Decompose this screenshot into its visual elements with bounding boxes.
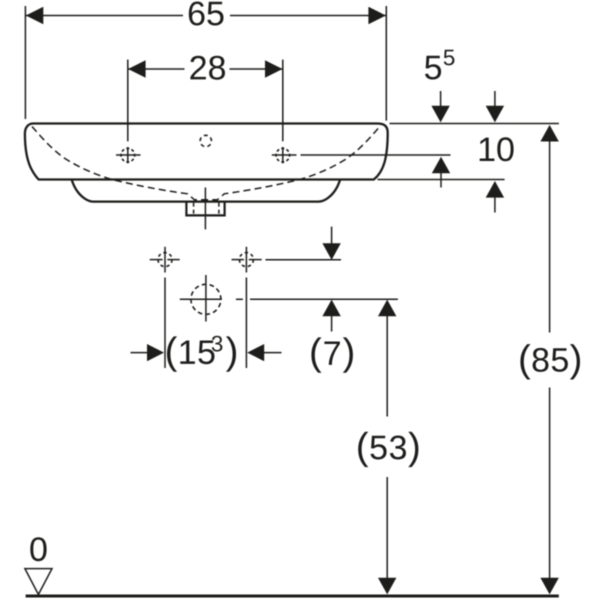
fixing hole left crosshair v (164, 247, 166, 273)
dim 28 extension line right (282, 60, 284, 142)
dim 65 extension line left (24, 6, 26, 119)
dim 28 extension line left (127, 60, 129, 142)
dim 65 line right segment (230, 15, 386, 17)
drain interior dashed line right (218, 203, 220, 215)
basin lower tier outline (72, 180, 340, 202)
dim 53 line upper segment (386, 316, 388, 417)
dim 7 down arrow (331, 227, 333, 244)
dim 53 line lower segment (386, 477, 388, 579)
overflow hole dashed circle (200, 135, 211, 146)
dim 5^5 up arrow (432, 157, 450, 174)
dim 7 label (311, 337, 353, 372)
fixing hole right dashed circle (239, 253, 253, 267)
datum triangle (25, 569, 52, 595)
dim 15_3 line left (131, 352, 148, 354)
drain interior dashed line left (193, 203, 195, 215)
body bottom reference line to right (378, 179, 505, 181)
centerline below drain (204, 188, 206, 230)
dim 28 line right segment (230, 68, 283, 70)
dim 5^5 label (425, 56, 441, 80)
dim 15_3 arrow left (147, 344, 164, 361)
tap hole 1 crosshair h (116, 154, 141, 156)
dim 10 label (480, 137, 514, 161)
dim 10 up arrow (486, 181, 504, 198)
dim 5^5 down arrow (440, 91, 442, 107)
dim 53 down arrow (378, 578, 396, 595)
basin upper body outline (25, 124, 388, 180)
dim 65 line left segment (26, 15, 183, 17)
fixing hole left crosshair h (150, 259, 163, 261)
dim 15_3 label (167, 336, 215, 371)
dim 28 label (190, 56, 225, 80)
drain axis line segment 3 (250, 298, 398, 300)
tap hole 1 dashed circle (121, 148, 135, 162)
dim 28 line left segment (128, 68, 185, 70)
fixing hole right crosshair v (245, 247, 247, 273)
dim 7 up arrow (322, 300, 340, 317)
tap hole 2 crosshair v (282, 147, 284, 163)
dim 15_3 arrow right (247, 344, 264, 361)
rim top reference line to right (390, 123, 559, 125)
dim 65 arrow right (368, 7, 386, 24)
ground line (26, 595, 559, 598)
drain axis line segment 1 (180, 298, 222, 300)
drain hole crosshair v (205, 275, 207, 322)
drain hole dashed circle (191, 284, 221, 314)
dim 28 arrow right (265, 60, 283, 77)
dim 85 line upper segment (549, 141, 551, 332)
tap axis reference line to right (301, 154, 451, 156)
dim 65 extension line right (385, 6, 387, 121)
dim 53 up arrow (378, 300, 396, 317)
tap hole 2 dashed circle (276, 148, 290, 162)
dim 85 down arrow (540, 578, 558, 595)
fixing axis reference line for dim 7 (266, 259, 342, 261)
tap hole 1 crosshair v (127, 147, 129, 163)
dim 85 line lower segment (549, 388, 551, 579)
dim 10 down arrow (494, 91, 496, 107)
fixing hole right extension line down (245, 278, 247, 369)
dim 15_3 line right (264, 352, 282, 354)
tap hole 2 crosshair h (272, 154, 297, 156)
dim 65 label (189, 2, 224, 26)
datum 0 label (30, 537, 46, 561)
dim 85 up arrow (540, 125, 558, 142)
dim 85 label (520, 344, 580, 379)
inner bowl dashed curve (32, 127, 380, 200)
drain fitting (186, 202, 224, 216)
dim 65 arrow left (26, 7, 44, 24)
dim 28 arrow left (128, 60, 146, 77)
fixing hole left extension line down (164, 278, 166, 369)
dim 53 label (358, 432, 418, 467)
fixing hole left dashed circle (158, 253, 172, 267)
drain axis line segment 2 (236, 298, 243, 300)
fixing hole right crosshair h (232, 259, 245, 261)
